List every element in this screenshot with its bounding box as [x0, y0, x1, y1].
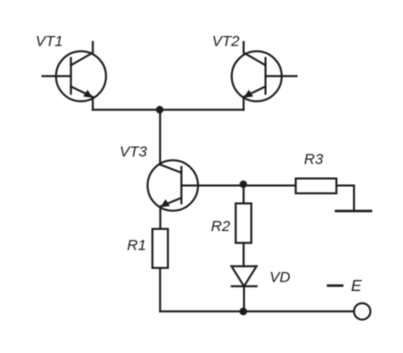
node junction bottom	[240, 308, 248, 316]
svg-text:R2: R2	[211, 218, 231, 235]
wire R3 to ground	[337, 186, 354, 211]
resistor R1	[152, 229, 168, 268]
wire R2 to VD	[243, 243, 245, 266]
svg-text:R3: R3	[304, 151, 324, 168]
node junction base/R2/R3	[240, 181, 247, 188]
terminal -E	[354, 303, 370, 319]
ground	[336, 210, 371, 213]
resistor R2	[236, 203, 252, 243]
label -E	[328, 278, 362, 295]
svg-text:R1: R1	[127, 237, 146, 254]
transistor VT3	[148, 160, 198, 228]
wire junction to VT3 collector	[159, 110, 161, 165]
svg-text:VT2: VT2	[212, 33, 240, 50]
svg-text:VT1: VT1	[36, 33, 64, 50]
transistor VT2	[232, 42, 297, 110]
transistor VT1	[43, 42, 107, 110]
svg-text:VD: VD	[270, 269, 291, 286]
wire emitters VT1-VT2	[93, 109, 244, 111]
diode VD	[232, 266, 257, 311]
wire node to R2	[243, 186, 245, 204]
resistor R3	[296, 179, 337, 194]
wire bottom rail	[160, 310, 354, 312]
wire R1 bottom	[159, 269, 161, 312]
svg-text:E: E	[351, 278, 362, 295]
svg-text:VT3: VT3	[120, 144, 148, 161]
wire VT3 base to node	[181, 185, 294, 187]
node junction top	[156, 106, 164, 114]
